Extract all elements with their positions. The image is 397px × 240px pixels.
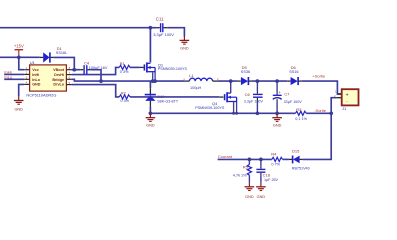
- transistor Q4 PSMN039-100YS: [219, 92, 236, 102]
- junction D10 / bottom rail / GND: [149, 111, 153, 115]
- svg-text:C6: C6: [245, 92, 251, 97]
- pin stub J1 pin2: [336, 97, 342, 99]
- svg-text:GND: GND: [14, 108, 23, 112]
- transistor Q1 PSMN039-100YS: [140, 62, 156, 72]
- svg-text:R4: R4: [271, 151, 277, 156]
- resistor R2: [119, 95, 130, 99]
- junction C4 / bridge rail: [99, 79, 103, 83]
- wire Q1 drain vertical: [149, 28, 151, 63]
- svg-text:3,3µF 100V: 3,3µF 100V: [153, 32, 174, 37]
- connector J1: [342, 89, 359, 105]
- diode D1: [40, 52, 54, 62]
- wire Q1 bulk to bridge rail: [154, 72, 156, 81]
- junction C6 / bottom rail: [256, 111, 260, 115]
- wire bottom rail: [150, 112, 295, 114]
- junction C7 / bottom rail: [275, 111, 279, 115]
- junction C6 / output rail: [256, 79, 260, 83]
- svg-text:GND: GND: [257, 195, 266, 199]
- wire D1 cathode to VBoot: [54, 57, 75, 69]
- wire DrvLo to R2: [72, 85, 120, 97]
- wire Q4 bulk to bottom rail: [236, 102, 238, 114]
- inductor L1: [185, 78, 218, 81]
- junction C7 / output rail: [275, 79, 279, 83]
- diode D5: [237, 77, 251, 85]
- svg-text:0,1 1%: 0,1 1%: [295, 117, 307, 121]
- pin 7 stub DrvHi: [66, 74, 71, 76]
- svg-text:R2: R2: [121, 91, 127, 96]
- wire R2 to Q4 gate: [130, 96, 219, 98]
- svg-text:Bridge: Bridge: [52, 78, 64, 82]
- capacitor C18: [256, 159, 265, 182]
- junction Q4 source / bottom rail: [232, 112, 235, 115]
- junction Q1 bulk / bridge: [153, 79, 157, 83]
- svg-text:SS16: SS16: [289, 70, 298, 74]
- pin 3 stub InLo: [24, 78, 29, 80]
- junction C18 / courant: [259, 158, 263, 162]
- junction Q4 bulk / bottom rail: [235, 112, 238, 115]
- capacitor C6: [253, 81, 263, 113]
- pin 8 stub VBoot: [66, 69, 71, 71]
- svg-text:GND: GND: [146, 124, 155, 128]
- svg-text:Q4: Q4: [212, 101, 218, 106]
- capacitor C11: [150, 23, 167, 32]
- capacitor C4: [80, 65, 91, 75]
- svg-text:GND: GND: [245, 195, 254, 199]
- wire D15 to -Sortie riser: [303, 113, 331, 159]
- svg-text:C4: C4: [84, 61, 90, 66]
- svg-text:+Sortie: +Sortie: [312, 74, 326, 79]
- resistor R4: [272, 157, 283, 161]
- svg-text:+: +: [278, 90, 281, 95]
- wire DrvHi to R1: [72, 67, 120, 74]
- wire D6 to J1 pin1: [302, 81, 342, 94]
- wire R1 to Q1 gate: [130, 66, 140, 68]
- diode D15: [289, 156, 303, 164]
- svg-text:PSMN039-100YS: PSMN039-100YS: [158, 67, 188, 71]
- svg-text:DrvHi: DrvHi: [54, 73, 64, 77]
- junction -Sortie / J1 pin2 / current loop: [329, 111, 333, 115]
- wire J1 pin2 riser: [331, 98, 336, 114]
- diode D10 freewheel: [145, 81, 156, 113]
- wire GND pin to ground: [19, 84, 25, 96]
- svg-text:L1: L1: [189, 73, 194, 78]
- pin stub J1 pin1: [337, 93, 341, 95]
- svg-text:DrvLo: DrvLo: [53, 83, 64, 87]
- svg-text:InLo: InLo: [4, 75, 13, 80]
- svg-text:4,7k 1%: 4,7k 1%: [233, 173, 247, 177]
- wire Q4 source to bottom rail: [233, 102, 235, 114]
- svg-text:C18: C18: [263, 172, 271, 177]
- resistor R3 shunt: [295, 111, 306, 115]
- junction Q1 source / bridge: [151, 79, 155, 83]
- svg-text:GND: GND: [32, 83, 41, 87]
- svg-text:SS36: SS36: [241, 70, 250, 74]
- junction VBoot / D1 / C4: [72, 68, 76, 72]
- wire L1 to D5: [218, 80, 238, 82]
- svg-text:0 3%: 0 3%: [120, 70, 129, 74]
- svg-text:GND: GND: [180, 46, 189, 50]
- ground symbol (D10): [146, 113, 156, 121]
- wire +15V to Vcc: [19, 57, 24, 69]
- junction top rail / C11 / Q1 drain: [149, 26, 153, 30]
- resistor R1: [119, 65, 130, 69]
- capacitor C7 polarized: [273, 81, 282, 113]
- ground symbol (C11): [180, 36, 190, 44]
- svg-text:R5: R5: [243, 164, 249, 169]
- pin 2 stub InHi: [24, 73, 29, 75]
- svg-text:-Sortie: -Sortie: [314, 108, 327, 113]
- wire R3 to J1 pin2: [306, 112, 331, 114]
- wire R4 to D15: [283, 158, 289, 160]
- ground symbol (U1): [14, 96, 24, 104]
- svg-text:D15: D15: [292, 149, 300, 154]
- svg-text:SS16L: SS16L: [56, 51, 67, 55]
- svg-text:Courant: Courant: [218, 154, 233, 159]
- ground symbol (C18): [256, 182, 266, 190]
- wire D5 to D6: [252, 80, 288, 82]
- svg-text:PSMN039-100YS: PSMN039-100YS: [195, 106, 225, 110]
- svg-text:0 3%: 0 3%: [120, 99, 129, 103]
- power port +15V: [14, 43, 24, 57]
- svg-text:3,3µF 100V: 3,3µF 100V: [244, 100, 264, 104]
- wire C4 to bridge: [91, 70, 101, 81]
- pin 4 stub GND: [24, 83, 29, 85]
- resistor R5 vertical: [247, 159, 251, 182]
- svg-text:100µH: 100µH: [190, 86, 202, 90]
- svg-text:33µF 100V: 33µF 100V: [284, 100, 303, 104]
- pin 6 stub Bridge: [66, 78, 71, 80]
- wire bridge rail: [72, 79, 185, 81]
- op-amp U1 driver NCP5110 box: [30, 65, 67, 91]
- junction R5 / courant: [248, 158, 252, 162]
- svg-text:InHi: InHi: [32, 73, 39, 77]
- wire net InHi: [4, 73, 24, 75]
- junction Q4 drain / output rail: [229, 79, 233, 83]
- wire Q1 source to bridge rail: [152, 73, 154, 82]
- svg-text:U1: U1: [30, 60, 36, 65]
- svg-text:J1: J1: [342, 106, 347, 111]
- svg-text:R1: R1: [120, 61, 126, 66]
- svg-text:C7: C7: [284, 91, 290, 96]
- svg-text:R3: R3: [296, 107, 302, 112]
- pin 1 stub Vcc: [24, 69, 29, 71]
- svg-text:RB751V40: RB751V40: [292, 167, 310, 171]
- svg-text:C11: C11: [156, 17, 164, 22]
- svg-text:+15V: +15V: [14, 43, 24, 48]
- wire C11 to GND: [167, 28, 184, 37]
- svg-text:Vcc: Vcc: [32, 68, 39, 72]
- wire courant net: [218, 158, 272, 160]
- wire top rail net +HT: [0, 27, 150, 29]
- svg-text:InLo: InLo: [32, 78, 41, 82]
- junction +15V / rail: [17, 55, 21, 59]
- svg-text:1µF 25V: 1µF 25V: [264, 178, 279, 182]
- wire +batt rail from left edge: [0, 56, 40, 58]
- ground symbol (R5): [245, 182, 255, 190]
- svg-text:VBoot: VBoot: [53, 68, 65, 72]
- diode D6: [287, 77, 301, 85]
- svg-text:S8K-G3-8TT: S8K-G3-8TT: [157, 100, 179, 104]
- svg-text:NCP5110ADR2G: NCP5110ADR2G: [26, 93, 56, 98]
- wire VBoot to C4: [72, 69, 81, 71]
- svg-text:GND: GND: [273, 124, 282, 128]
- svg-text:0 7%: 0 7%: [271, 163, 280, 167]
- ground symbol (output): [272, 113, 282, 121]
- wire Q4 drain to output rail: [230, 81, 232, 93]
- pin 5 stub DrvLo: [66, 84, 71, 86]
- wire net InLo: [4, 78, 24, 80]
